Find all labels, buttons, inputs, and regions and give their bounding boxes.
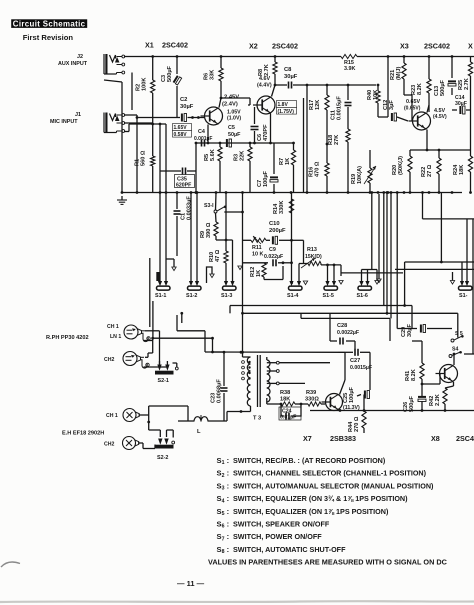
wire head CH2 leads xyxy=(144,353,168,367)
svg-text:SWITCH, POWER ON/OFF: SWITCH, POWER ON/OFF xyxy=(233,532,322,541)
resistor R1 xyxy=(135,150,155,166)
svg-text:R8: R8 xyxy=(258,69,264,76)
label erase CH1 xyxy=(106,413,118,419)
svg-text:(2.4V): (2.4V) xyxy=(222,102,238,108)
switch S2-2 xyxy=(155,439,174,449)
wire S1-1 drops xyxy=(124,123,166,282)
svg-text:MIC INPUT: MIC INPUT xyxy=(50,119,78,125)
resistor R11 pot xyxy=(251,236,266,258)
svg-text:0.0033µF: 0.0033µF xyxy=(187,196,193,220)
svg-text:R39: R39 xyxy=(306,390,316,396)
svg-text:2SC402: 2SC402 xyxy=(162,41,188,50)
svg-text:C27: C27 xyxy=(350,358,360,364)
wire S1-3 second xyxy=(226,240,233,282)
resistor R19 level pot xyxy=(351,150,376,193)
transistor stage label X1 xyxy=(145,41,188,50)
arrow S1-5 xyxy=(339,281,343,285)
arrow S1-6 xyxy=(368,270,380,285)
svg-text:R2: R2 xyxy=(136,84,142,91)
arrow S2-2 aux xyxy=(172,441,175,444)
wire bundle c xyxy=(396,191,399,328)
scan artifact bottom streak xyxy=(0,600,474,603)
legend line S1 xyxy=(217,456,386,466)
svg-text:2.7K: 2.7K xyxy=(264,64,270,76)
capacitor C11 xyxy=(331,85,352,129)
legend line S8 xyxy=(217,545,347,555)
svg-text:47 Ω: 47 Ω xyxy=(215,249,221,262)
svg-text:330K: 330K xyxy=(279,201,285,214)
svg-text:S1-3: S1-3 xyxy=(221,293,232,299)
svg-text:R21: R21 xyxy=(390,70,396,80)
switch S1-4 xyxy=(287,281,302,299)
svg-text:R.PH PP30 4202: R.PH PP30 4202 xyxy=(46,335,89,341)
svg-text:— 11 —: — 11 — xyxy=(177,579,205,588)
arrow S2-1 aux xyxy=(173,363,179,370)
resistor R22 xyxy=(421,150,441,193)
svg-text:R13: R13 xyxy=(307,247,317,253)
legend line S3 xyxy=(217,481,435,491)
svg-text:(1.0V): (1.0V) xyxy=(227,116,241,122)
title block xyxy=(11,19,87,28)
page number xyxy=(177,579,205,588)
wire S1-5 drops xyxy=(328,265,335,282)
capacitor C7 xyxy=(257,143,278,193)
svg-text:J1: J1 xyxy=(75,112,81,118)
legend line S7 xyxy=(217,532,323,542)
capacitor C5 xyxy=(226,125,241,147)
svg-text:0.0015µF: 0.0015µF xyxy=(337,96,343,120)
capacitor C6 xyxy=(251,107,270,143)
resistor R39 xyxy=(305,390,321,406)
svg-text:Circuit Schematic: Circuit Schematic xyxy=(13,20,86,29)
resistor R3 xyxy=(234,142,253,193)
svg-text:X8: X8 xyxy=(431,434,440,443)
svg-text:R3: R3 xyxy=(234,154,240,161)
capacitor C13 xyxy=(434,55,456,96)
svg-text:CH2: CH2 xyxy=(104,357,114,363)
svg-text:R11: R11 xyxy=(252,245,262,251)
wire out top a xyxy=(230,306,412,329)
svg-text:30µF: 30µF xyxy=(407,324,413,337)
label LN1 xyxy=(110,334,121,340)
resistor R2 xyxy=(136,78,155,93)
label J1 MIC INPUT xyxy=(50,112,81,125)
wire R17 drop xyxy=(326,110,329,163)
svg-text:R38: R38 xyxy=(280,390,290,396)
wire S1-7 drop xyxy=(462,219,467,282)
wire mid link f xyxy=(395,268,474,270)
wire output ground xyxy=(310,409,474,412)
label S2-1 xyxy=(158,378,169,384)
wire S1-2 drops xyxy=(190,191,199,281)
wire T3 top link xyxy=(205,351,345,354)
head CH1 record xyxy=(124,325,150,342)
jack J1 xyxy=(104,113,125,133)
svg-text:500µF: 500µF xyxy=(167,65,173,82)
svg-text:100K: 100K xyxy=(142,78,148,91)
wire R14 line xyxy=(290,193,293,284)
svg-text:C3: C3 xyxy=(161,75,167,82)
svg-text:R6: R6 xyxy=(204,73,210,80)
switch S4 xyxy=(449,347,474,358)
svg-text:C1: C1 xyxy=(181,213,187,220)
svg-text:SWITCH, REC/P.B. : (AT RECORD: SWITCH, REC/P.B. : (AT RECORD POSITION) xyxy=(233,456,386,465)
label X1 emitter voltage xyxy=(227,110,241,122)
transformer T3 secondary xyxy=(267,357,279,402)
svg-text:100µF: 100µF xyxy=(349,386,355,403)
svg-text:390 Ω: 390 Ω xyxy=(206,222,212,238)
resistor R40 xyxy=(367,84,380,117)
svg-text:(4.5V): (4.5V) xyxy=(433,114,447,120)
svg-text:R44: R44 xyxy=(348,421,354,432)
svg-text:C9: C9 xyxy=(269,247,276,253)
svg-text:33K: 33K xyxy=(210,70,216,80)
switch S1-6 xyxy=(357,281,372,299)
svg-text:500µF: 500µF xyxy=(440,79,446,96)
svg-text:2SC4: 2SC4 xyxy=(456,434,474,443)
svg-text:R12: R12 xyxy=(250,267,256,277)
transistor stage label X4 xyxy=(468,42,473,51)
wire X7 emitter out xyxy=(339,409,342,412)
resistor R18 xyxy=(328,129,350,193)
label CH1 xyxy=(107,324,119,330)
capacitor C14 xyxy=(452,95,471,114)
svg-text:S3-I: S3-I xyxy=(204,203,214,209)
svg-text:0.58V: 0.58V xyxy=(174,132,188,138)
wire C3 drop xyxy=(176,55,179,117)
wire bundle a xyxy=(382,191,385,305)
capacitor C27 xyxy=(345,349,372,390)
svg-text:R7: R7 xyxy=(279,158,285,165)
svg-text:S1-5: S1-5 xyxy=(323,293,334,299)
resistor R13 xyxy=(292,240,322,268)
wire X3 base xyxy=(404,95,412,121)
wire right link upper xyxy=(423,193,474,219)
svg-text:C5: C5 xyxy=(228,125,235,131)
wire record bus xyxy=(153,337,214,352)
svg-text:X: X xyxy=(468,42,473,51)
svg-text:330Ω: 330Ω xyxy=(305,397,319,403)
label CH2 xyxy=(104,357,114,363)
svg-text:J2: J2 xyxy=(77,54,83,60)
svg-text:0.01µF: 0.01µF xyxy=(280,415,296,421)
label E.H EF18 2902H xyxy=(62,431,104,437)
svg-text:0.022µF: 0.022µF xyxy=(264,254,283,260)
svg-text:X2: X2 xyxy=(249,42,258,51)
subtitle xyxy=(23,33,74,42)
svg-text:C6: C6 xyxy=(257,134,263,141)
svg-text:S1-: S1- xyxy=(459,293,468,299)
svg-text:SWITCH, EQUALIZER (ON 1⅞ 1PS P: SWITCH, EQUALIZER (ON 1⅞ 1PS POSITION) xyxy=(233,507,389,516)
resistor R14 xyxy=(273,199,294,214)
switch S1-2 xyxy=(186,281,201,299)
svg-text:X3: X3 xyxy=(400,42,409,51)
wire L to T3 xyxy=(227,410,242,421)
svg-text:R16: R16 xyxy=(309,167,315,177)
svg-text:0.65V: 0.65V xyxy=(406,99,420,105)
switch S1-5 xyxy=(323,281,338,299)
svg-text:S4: S4 xyxy=(452,347,458,353)
svg-text:R17: R17 xyxy=(309,100,315,110)
resistor R42 xyxy=(429,382,454,411)
switch S1-7 xyxy=(459,281,473,299)
wire S1-6 drops xyxy=(362,191,374,281)
legend note xyxy=(208,558,448,567)
svg-text:S1-1: S1-1 xyxy=(155,293,166,299)
resistor R5 xyxy=(204,143,222,193)
wire X2 emitter xyxy=(270,114,272,144)
svg-text:2.2K: 2.2K xyxy=(435,394,441,406)
svg-text:0.0015µF: 0.0015µF xyxy=(350,365,372,371)
svg-text:C4: C4 xyxy=(198,129,205,135)
svg-text:First Revision: First Revision xyxy=(23,33,74,42)
svg-text:R23: R23 xyxy=(411,85,417,95)
head CH2 erase xyxy=(123,437,143,450)
svg-text:30µF: 30µF xyxy=(180,104,194,110)
switch S5 xyxy=(451,331,464,342)
svg-text:(50K(J): (50K(J) xyxy=(398,156,404,175)
capacitor C29 xyxy=(397,324,452,337)
svg-text:R25: R25 xyxy=(458,80,464,90)
svg-text:C29: C29 xyxy=(401,327,407,337)
wire R6 xyxy=(220,55,223,98)
svg-text:270 Ω: 270 Ω xyxy=(354,416,360,432)
svg-text:500µF: 500µF xyxy=(409,395,415,412)
resistor R24 xyxy=(452,150,473,193)
capacitor C24 xyxy=(279,404,301,421)
svg-text:3µF: 3µF xyxy=(389,100,395,110)
wire X8 collector xyxy=(453,353,456,365)
svg-text:2.7K: 2.7K xyxy=(464,78,470,90)
wire mid link e xyxy=(341,272,403,274)
wire J1 mid contact xyxy=(124,122,153,124)
arrow S1-2 hook xyxy=(207,267,215,283)
wire far right vertical xyxy=(472,219,474,354)
svg-text:R42: R42 xyxy=(429,396,435,406)
svg-text:R5: R5 xyxy=(204,154,210,161)
svg-text:10 K: 10 K xyxy=(252,252,263,258)
label X1 input voltages xyxy=(173,124,192,138)
jack J2 xyxy=(104,54,125,74)
svg-text:R14: R14 xyxy=(273,203,279,214)
label X7 voltage xyxy=(343,405,360,411)
wire out top c xyxy=(301,313,390,341)
legend line S2 xyxy=(217,469,427,479)
transformer T3 taps xyxy=(242,361,251,380)
label J2 AUX INPUT xyxy=(58,54,88,67)
wire emitter drop xyxy=(195,144,198,194)
wire X2 base xyxy=(248,104,250,106)
svg-text:R18: R18 xyxy=(328,135,334,145)
wire R38-R39 xyxy=(295,403,308,406)
label X1 voltages xyxy=(222,95,239,108)
svg-text:T 3: T 3 xyxy=(253,416,261,422)
capacitor C10 xyxy=(266,221,293,244)
wire mid drop x242 xyxy=(241,211,244,314)
svg-text:R24: R24 xyxy=(453,164,459,175)
wire record head risers xyxy=(150,258,160,339)
svg-text:AUX INPUT: AUX INPUT xyxy=(58,61,88,67)
svg-text:C23: C23 xyxy=(211,393,217,403)
resistor R41 xyxy=(405,341,424,392)
wire mid drop left xyxy=(242,193,244,213)
svg-text:CH 1: CH 1 xyxy=(107,324,119,330)
wire X2 box drop xyxy=(303,98,305,193)
capacitor C26 xyxy=(403,392,426,412)
svg-text:(4.4V): (4.4V) xyxy=(257,83,272,89)
svg-text:C28: C28 xyxy=(337,323,347,329)
transistor X1 xyxy=(201,107,223,125)
svg-text:R41: R41 xyxy=(405,371,411,381)
svg-text:VALUES IN PARENTHESES ARE MEAS: VALUES IN PARENTHESES ARE MEASURED WITH … xyxy=(208,558,448,567)
wire input to X1 base xyxy=(136,116,204,119)
inductor L xyxy=(178,406,227,435)
svg-text:C25: C25 xyxy=(343,393,349,403)
resistor R17 xyxy=(309,85,329,110)
svg-text:100µF: 100µF xyxy=(263,170,269,187)
switch S2-1 xyxy=(155,361,174,375)
svg-text:CH2: CH2 xyxy=(104,442,114,448)
capacitor C23 xyxy=(211,352,228,421)
transistor stage label X2 xyxy=(249,42,298,51)
svg-text:560 Ω: 560 Ω xyxy=(141,150,147,166)
switch S1-3 xyxy=(221,281,236,299)
resistor R10 xyxy=(209,193,228,282)
label R8 node voltage xyxy=(257,76,272,89)
wire S1-4 drops xyxy=(292,264,304,284)
transformer T3 core xyxy=(258,355,261,407)
svg-text:R9: R9 xyxy=(200,231,206,238)
arrow S1-4 xyxy=(303,281,307,285)
label X2 voltage xyxy=(277,101,297,115)
label X7 2SB383 xyxy=(303,434,356,443)
resistor R9 xyxy=(200,213,227,241)
transformer T3 primary xyxy=(227,357,251,412)
capacitor C9 xyxy=(243,247,292,266)
svg-text:12K: 12K xyxy=(315,100,321,110)
capacitor C1 xyxy=(174,193,193,257)
capacitor C8 xyxy=(284,67,298,89)
wire X7 collector xyxy=(340,352,346,394)
svg-text:SWITCH, AUTOMATIC SHUT-OFF: SWITCH, AUTOMATIC SHUT-OFF xyxy=(233,545,346,554)
svg-text:LN 1: LN 1 xyxy=(110,334,121,340)
resistor R12 xyxy=(250,263,283,280)
svg-text:2SB383: 2SB383 xyxy=(330,434,356,443)
legend line S5 xyxy=(217,507,389,517)
svg-text:30µF: 30µF xyxy=(284,74,298,80)
wire erase CH2 leads xyxy=(139,430,174,449)
svg-text:R22: R22 xyxy=(421,167,427,177)
wire top supply rail xyxy=(124,56,474,58)
svg-text:620PF: 620PF xyxy=(176,183,191,189)
svg-text:S1-6: S1-6 xyxy=(357,293,368,299)
svg-text:S2-1: S2-1 xyxy=(158,378,169,384)
wire T3 primary top xyxy=(241,312,244,357)
resistor R8 xyxy=(258,55,277,76)
transistor X8 xyxy=(436,365,458,383)
wire X1 emitter xyxy=(195,125,255,145)
svg-text:1K: 1K xyxy=(256,270,262,277)
svg-text:L: L xyxy=(197,429,201,435)
svg-text:2SC402: 2SC402 xyxy=(272,42,298,51)
ground xyxy=(117,191,127,204)
svg-text:(M(J): (M(J) xyxy=(396,67,402,80)
svg-text:X1: X1 xyxy=(145,41,154,50)
svg-text:X7: X7 xyxy=(303,434,312,443)
switch S3-1 xyxy=(204,193,243,214)
label X8 2SC xyxy=(431,434,474,443)
svg-text:S2-2: S2-2 xyxy=(157,455,168,461)
wire out top b xyxy=(243,304,458,315)
capacitor C3 xyxy=(161,65,182,85)
capacitor C28 xyxy=(330,313,359,349)
label S2-2 xyxy=(157,455,168,461)
wire J2 sleeve drop xyxy=(104,80,122,193)
transistor stage label X3 xyxy=(400,42,450,51)
svg-text:30µF: 30µF xyxy=(455,101,467,107)
legend line S4 xyxy=(217,494,409,504)
wire head junction xyxy=(177,312,205,352)
wire right link lower xyxy=(405,193,474,306)
resistor R15 xyxy=(341,54,357,72)
arrow S1-3 xyxy=(238,266,242,270)
resistor R16 xyxy=(309,161,330,192)
svg-text:18K: 18K xyxy=(280,397,290,403)
wire C6 bottom xyxy=(253,142,295,145)
wire bundle b xyxy=(386,191,389,313)
label erase CH2 xyxy=(104,442,114,448)
wire J2 contact drop xyxy=(131,73,133,111)
resistor R38 xyxy=(280,390,295,406)
svg-text:C12: C12 xyxy=(383,100,389,110)
svg-text:C10: C10 xyxy=(269,221,280,227)
svg-text:0.001µF: 0.001µF xyxy=(194,136,212,142)
resistor R21 xyxy=(390,55,406,95)
svg-text:200µF: 200µF xyxy=(269,228,286,234)
wire erase CH1 leads xyxy=(139,406,188,437)
svg-text:3.9K: 3.9K xyxy=(344,66,355,72)
wire secondary tap lower xyxy=(279,382,305,384)
arrow S1-7 xyxy=(450,272,454,284)
wire left chain xyxy=(151,55,154,192)
wire X2 collector xyxy=(272,74,277,97)
svg-text:C8: C8 xyxy=(284,67,292,73)
svg-text:SWITCH, CHANNEL SELECTOR (CHAN: SWITCH, CHANNEL SELECTOR (CHANNEL-1 POSI… xyxy=(233,469,427,478)
capacitor C2 xyxy=(180,97,194,122)
resistor R7 xyxy=(279,143,296,193)
wire mid rail xyxy=(275,84,376,87)
capacitor C4 xyxy=(194,129,212,147)
wire X3 emitter xyxy=(410,130,452,152)
transistor X3 xyxy=(409,112,431,130)
svg-text:C13: C13 xyxy=(434,86,440,96)
svg-text:8.2K: 8.2K xyxy=(417,83,423,95)
wire right edge drop xyxy=(470,104,472,150)
wire X3 base feed xyxy=(378,55,389,117)
svg-text:C11: C11 xyxy=(331,110,337,120)
wire head CH1 leads xyxy=(144,331,160,365)
wire R41 junction xyxy=(421,374,440,386)
svg-text:1K: 1K xyxy=(285,158,291,165)
svg-text:0.0068µF: 0.0068µF xyxy=(217,379,223,403)
label R.PH PP30 4202 xyxy=(46,335,89,341)
svg-text:2SC402: 2SC402 xyxy=(424,42,450,51)
transistor X2 xyxy=(253,96,275,114)
head CH2 record xyxy=(123,352,149,369)
transistor X7 xyxy=(322,394,343,411)
capacitor C12 xyxy=(383,100,408,121)
svg-text:50µF: 50µF xyxy=(228,132,241,138)
